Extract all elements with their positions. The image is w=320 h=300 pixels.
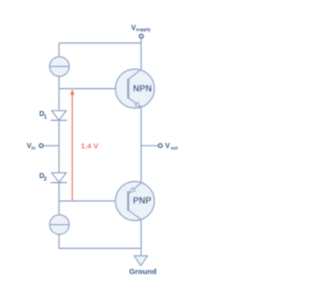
svg-text:1.4 V: 1.4 V bbox=[81, 141, 99, 150]
svg-text:V: V bbox=[165, 141, 170, 150]
svg-text:PNP: PNP bbox=[133, 196, 152, 206]
svg-text:in: in bbox=[31, 145, 35, 150]
svg-text:2: 2 bbox=[44, 176, 47, 182]
svg-text:supply: supply bbox=[136, 27, 151, 32]
svg-text:1: 1 bbox=[44, 114, 47, 120]
svg-text:NPN: NPN bbox=[133, 83, 152, 93]
svg-text:out: out bbox=[171, 145, 179, 150]
svg-text:Ground: Ground bbox=[129, 267, 157, 276]
